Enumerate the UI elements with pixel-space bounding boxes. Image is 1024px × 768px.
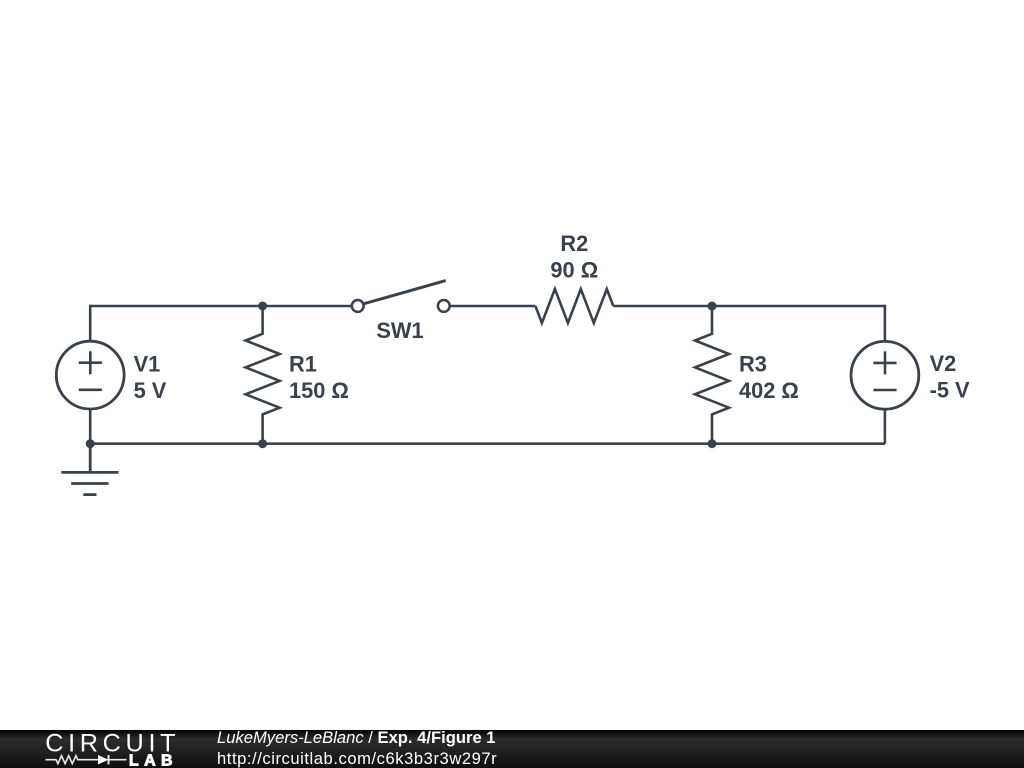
wire V1 left vertical top [89,305,92,342]
svg-text:402 Ω: 402 Ω [739,378,799,403]
ground [61,444,118,495]
resistor R2 [535,289,613,323]
svg-text:R1: R1 [289,351,317,376]
node V1 bottom junction [86,439,95,448]
footer attribution text [217,727,497,768]
wire V2 right vertical bottom [884,409,887,444]
svg-text:5 V: 5 V [134,378,167,403]
resistor R3 [695,306,729,444]
wire SW1 right terminal to R2 [451,305,536,308]
node R3 top junction [708,302,717,311]
switch SW1 blade [362,281,445,305]
V2 minus sign [873,389,896,392]
svg-text:V1: V1 [134,351,161,376]
svg-text:-5 V: -5 V [930,378,970,403]
footer bar [0,730,1024,768]
switch SW1 left terminal [352,300,364,312]
switch SW1 right terminal [438,300,450,312]
resistor R1 [246,306,280,444]
node R1 top junction [258,302,267,311]
logo diode triangle [98,755,108,765]
wire V2 right vertical top [884,305,887,342]
svg-text:SW1: SW1 [376,318,423,343]
svg-text:R3: R3 [739,352,767,377]
wire top left: V1 top to SW1 left terminal [90,305,351,308]
logo resistor-diode symbol [46,755,127,764]
V2 plus sign [873,351,896,374]
V1 plus sign [79,351,102,374]
wire V1 left vertical bottom [89,409,92,444]
CircuitLab logo [45,730,190,768]
V1 minus sign [79,388,102,391]
svg-text:150 Ω: 150 Ω [289,378,349,403]
voltage source V1 circle [56,341,124,409]
svg-text:90 Ω: 90 Ω [550,258,598,283]
svg-text:LAB: LAB [129,753,178,768]
voltage source V2 circle [851,341,919,409]
node R3 bottom junction [708,439,717,448]
node R1 bottom junction [258,439,267,448]
wire bottom rail [90,442,885,445]
svg-text:V2: V2 [930,351,957,376]
svg-text:R2: R2 [560,231,588,256]
wire R2 to top-right corner down to V2 [613,305,885,308]
